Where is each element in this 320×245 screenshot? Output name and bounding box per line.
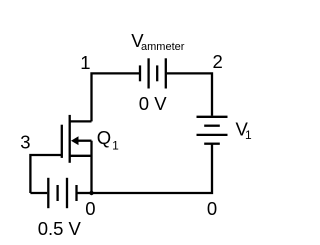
svg-text:3: 3 — [20, 132, 30, 153]
wire source-body down — [90, 141, 92, 193]
junction node0 — [89, 191, 93, 195]
svg-text:V1: V1 — [236, 119, 253, 142]
svg-text:0.5 V: 0.5 V — [38, 218, 82, 239]
svg-text:1: 1 — [80, 52, 90, 73]
svg-text:Q1: Q1 — [97, 127, 119, 152]
transistor Q1 — [62, 115, 92, 163]
wire bottom-mid — [77, 192, 92, 194]
battery 0.5V — [48, 178, 76, 208]
battery Vammeter — [140, 58, 166, 88]
wire node1 top-left — [92, 73, 140, 121]
svg-text:Vammeter: Vammeter — [131, 30, 184, 53]
wire right-bottom — [93, 144, 213, 193]
svg-text:0: 0 — [207, 198, 217, 219]
svg-text:0 V: 0 V — [139, 93, 167, 114]
wire top-right — [167, 73, 212, 115]
wire gate node3 — [30, 155, 61, 193]
wire bottom-left — [30, 192, 47, 194]
svg-text:2: 2 — [213, 51, 223, 72]
svg-text:0: 0 — [85, 198, 95, 219]
battery V1 — [197, 117, 228, 144]
